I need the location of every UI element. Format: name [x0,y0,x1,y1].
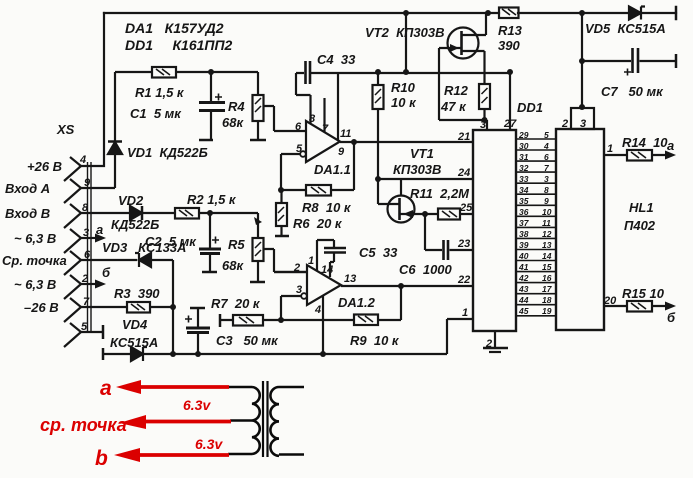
svg-text:~ 6,3 В: ~ 6,3 В [14,231,56,246]
resistor R7 20k [220,314,354,327]
label header DA1 K157UD2 [125,20,224,36]
svg-text:6: 6 [544,152,549,162]
svg-text:44: 44 [518,295,529,305]
label R10 10k [391,80,417,110]
svg-text:2: 2 [485,338,492,350]
capacitor C3 50mk electrolytic [185,308,210,354]
capacitor C5 33 loop pins 1-14 [317,240,346,277]
svg-text:С5 33: С5 33 [359,245,398,260]
node junction +line / pin27 riser [507,69,513,75]
svg-text:DD1 К161ПП2: DD1 К161ПП2 [125,37,233,53]
label input B [5,206,50,221]
label C1 5mk [130,106,182,121]
label red 6.3v upper [183,397,211,413]
svg-text:КП303В: КП303В [393,162,441,177]
label R1 1.5k [135,85,185,100]
svg-text:С1 5 мк: С1 5 мк [130,106,182,121]
svg-text:22: 22 [457,274,470,286]
svg-text:8: 8 [309,113,316,125]
svg-text:ср. точка: ср. точка [40,415,127,435]
label R9 10k [350,333,400,348]
core bars [263,381,268,457]
svg-text:11: 11 [542,218,551,228]
resistor R8 10k [306,185,331,196]
svg-text:VT1: VT1 [410,146,434,161]
svg-text:9: 9 [338,146,345,158]
svg-text:25: 25 [459,202,473,214]
svg-text:3: 3 [480,119,486,131]
svg-text:VD2: VD2 [118,193,144,208]
label DD1 left pins [457,131,473,319]
diode VD3 KS133A zener [135,253,151,267]
wire DD1 pin24 line [378,178,473,180]
svg-text:R13: R13 [498,23,523,38]
svg-text:14: 14 [542,251,552,261]
svg-text:DA1.1: DA1.1 [314,162,351,177]
label KD522B VD2 [111,217,159,232]
label b at pin2 [102,265,111,280]
wire DA1.2 output pin13 to DD1 pin22 [341,285,473,287]
wire pin27 riser into DD1 [509,72,511,130]
svg-text:5: 5 [296,143,303,155]
resistor R6 20k vertical [275,190,289,236]
label pin20 HL1 [603,295,617,307]
label R13 390 [498,23,523,53]
label R6 20k [293,216,343,231]
wire pin9 input A to VD1 [81,187,115,189]
wire winding lead middle [230,419,252,422]
label VD3 KS133A [102,240,186,255]
svg-text:6: 6 [295,121,302,133]
winding secondary right bumps [270,387,279,456]
svg-text:R5: R5 [228,237,245,252]
svg-text:10 к: 10 к [391,95,417,110]
svg-text:39: 39 [519,240,529,250]
wire connector double line [88,162,92,332]
wire pin8 input B line [81,212,175,214]
svg-text:9: 9 [84,177,91,189]
svg-text:10: 10 [542,207,552,217]
svg-text:R8 10 к: R8 10 к [302,200,352,215]
label bus pin numbers left 29-45 [518,130,530,316]
svg-text:13: 13 [542,240,552,250]
resistor R2 1.5k [175,208,258,219]
wire winding lead bottom [228,453,252,456]
label VD2 [118,193,144,208]
svg-text:35: 35 [519,196,529,206]
wire pin 4 DA1.2 to bottom rail [322,296,324,354]
HL1 top pin box 2/3 [571,13,594,129]
transformer T1 black symbol [228,381,304,457]
op-amp DA1.2 [307,265,341,305]
wire pin5 terminal [81,325,103,339]
wire red arrow a [116,380,229,394]
label R2 1.5k [187,192,237,207]
label ~6.3V upper [14,231,56,246]
label HL1 pin2 pin3 [561,118,586,130]
pin 3 DA1.2 inverting input circle [281,293,307,320]
svg-text:23: 23 [457,238,470,250]
node junction C7 branch [579,58,585,64]
label header DD1 K161PP2 [125,37,233,53]
label VD4 [122,317,148,332]
label DA1.2 [338,295,376,310]
svg-text:34: 34 [519,185,529,195]
node junction R8/R6/pin5 [278,187,284,193]
svg-text:3: 3 [296,284,302,296]
label a output [667,138,674,153]
diode VD4 KS515A zener on rail [131,347,147,361]
node junction HL1 pin3 entry [579,104,585,110]
node rail junction x488 [485,10,491,16]
svg-text:3: 3 [83,227,89,239]
svg-text:40: 40 [518,251,529,261]
IC HL1 P402 body [556,129,604,330]
node junction R2/C2 [207,210,213,216]
label R12 47k [440,83,469,114]
label VD1 KD522B [127,145,208,160]
label DA1.2 pins [293,255,356,316]
svg-text:b: b [95,447,108,470]
wire supply riser x406 to +line [405,13,407,72]
label ~6.3V lower [14,277,56,292]
svg-text:a: a [96,222,103,237]
svg-text:R1 1,5 к: R1 1,5 к [135,85,185,100]
IC DD1 K161PP2 body [473,130,516,331]
svg-text:12: 12 [542,229,552,239]
svg-text:68к: 68к [222,115,244,130]
svg-text:XS: XS [56,122,75,137]
svg-text:3: 3 [580,118,586,130]
wire R1 line y72 [115,71,258,73]
label C6 1000 [399,262,453,277]
wire DD1 to HL1 bus 17 lines [516,139,556,316]
svg-text:1: 1 [308,255,314,267]
resistor R14 10 with output arrow a [604,150,676,161]
svg-text:С6 1000: С6 1000 [399,262,453,277]
label midpoint [2,253,67,268]
svg-text:3: 3 [544,174,549,184]
label HL1 P402 [624,200,656,233]
label bus pin numbers right [542,130,553,316]
node junction R1/C1 [208,69,214,75]
node junction R10 bottom / gate VT1 [375,176,381,182]
svg-text:36: 36 [519,207,529,217]
label DD1 top pins 3 27 [480,118,517,131]
svg-text:R11 2,2М: R11 2,2М [410,186,470,201]
svg-text:2: 2 [293,262,300,274]
node junction pin3 feedback [278,317,284,323]
label R5 68k [222,237,245,273]
wire VT2 gate loop to DD1 pin3 [439,48,487,130]
label DD1 [517,100,543,115]
svg-text:R2 1,5 к: R2 1,5 к [187,192,237,207]
svg-text:Ср. точка: Ср. точка [2,253,67,268]
label R7 20k [211,296,261,311]
label VT2 KP303V [365,25,445,40]
svg-text:31: 31 [519,152,529,162]
svg-text:42: 42 [518,273,529,283]
label -26V [24,300,59,315]
svg-text:7: 7 [322,123,329,135]
node junction R10 top [375,69,381,75]
label C3 50mk [216,333,279,348]
svg-text:33: 33 [519,174,529,184]
svg-text:4: 4 [543,141,549,151]
node junction DA1.2 pin4 rail [320,351,326,357]
label C7 50mk [601,84,664,99]
svg-text:VD4: VD4 [122,317,148,332]
node junction +line x406 [403,69,409,75]
svg-text:R10: R10 [391,80,416,95]
svg-text:68к: 68к [222,258,244,273]
svg-text:6.3v: 6.3v [195,436,223,452]
label red b [95,447,108,470]
label DA1.1 pins [295,113,351,158]
svg-text:R6 20 к: R6 20 к [293,216,343,231]
wire secondary lead bottom [279,453,304,456]
svg-text:VD1 КД522Б: VD1 КД522Б [127,145,208,160]
svg-text:R14 10: R14 10 [622,135,668,150]
pin 5 DA1.1 inverting input circle [281,151,306,190]
svg-text:R12: R12 [444,83,469,98]
wire top supply rail [104,7,676,19]
wire left riser from pin 4 to rail [80,13,104,166]
svg-text:Вход А: Вход А [5,181,50,196]
svg-text:С3 50 мк: С3 50 мк [216,333,279,348]
svg-text:15: 15 [542,262,552,272]
svg-text:29: 29 [518,130,529,140]
svg-text:С4 33: С4 33 [317,52,356,67]
label R3 390 [114,286,160,301]
svg-text:45: 45 [518,306,529,316]
svg-text:1: 1 [607,143,613,155]
svg-text:20: 20 [603,295,617,307]
op-amp DA1.1 [306,121,340,162]
label red 6.3v lower [195,436,223,452]
svg-text:+26 В: +26 В [27,159,62,174]
transistor VT1 KP303V [378,179,425,223]
svg-text:5: 5 [81,321,88,333]
label KS515A VD4 [110,335,158,350]
label b output [667,310,676,325]
label red a [100,377,112,400]
resistor R13 390 on rail [499,8,519,19]
svg-text:7: 7 [83,296,90,308]
resistor R12 47k vertical [479,84,490,120]
node junction output/R9 [398,283,404,289]
svg-text:37: 37 [519,218,530,228]
label R15 10 [622,286,665,301]
capacitor C4 33 with loop to pin 8 [296,61,511,123]
svg-text:27: 27 [503,118,517,130]
wire feedback to R8 [281,142,354,190]
svg-text:a: a [667,138,674,153]
svg-text:R9 10 к: R9 10 к [350,333,400,348]
svg-text:21: 21 [457,131,470,143]
wire pin7 -26V line [81,306,173,308]
label C2 5mk [145,234,197,249]
svg-text:8: 8 [544,185,549,195]
capacitor C1 5mk electrolytic [199,72,225,140]
wire bottom rail [103,319,473,360]
svg-text:11: 11 [340,128,351,140]
svg-text:390: 390 [498,38,520,53]
node junction C3 rail [195,351,201,357]
svg-text:R7 20 к: R7 20 к [211,296,261,311]
svg-text:32: 32 [519,163,529,173]
label input A [5,181,50,196]
svg-text:17: 17 [542,284,553,294]
svg-text:HL1: HL1 [629,200,654,215]
svg-text:R4: R4 [228,99,245,114]
resistor R10 10k vertical [373,72,384,179]
svg-text:б: б [102,265,111,280]
svg-text:a: a [100,377,112,400]
svg-text:П402: П402 [624,218,656,233]
svg-text:6.3v: 6.3v [183,397,211,413]
diode VD1 KD522B vertical [108,72,122,188]
svg-text:VD3 КС133А: VD3 КС133А [102,240,186,255]
svg-text:–26 В: –26 В [24,300,59,315]
capacitor C7 50mk [582,48,676,76]
svg-text:DA1.2: DA1.2 [338,295,376,310]
wire vertical x173 [172,260,174,354]
label connector pin numbers [79,154,91,333]
resistor R3 390 [127,302,150,313]
wire pin6 midpoint line [81,259,173,261]
wire winding lead top [228,386,252,389]
node junction x173 rail [170,351,176,357]
wire red arrow middle [119,415,231,429]
svg-text:6: 6 [84,249,91,261]
svg-text:8: 8 [82,202,89,214]
node rail junction x406 [403,10,409,16]
wire DA1.1 output to DD1 pin21 [340,141,473,143]
svg-text:КС515А: КС515А [110,335,158,350]
label VD5 KS515A [585,21,666,36]
node junction R3/x173 [170,304,176,310]
svg-text:38: 38 [519,229,529,239]
label red sr.tochka [40,415,127,435]
svg-text:43: 43 [518,284,529,294]
label C4 33 [317,52,356,67]
svg-text:б: б [667,310,676,325]
wire DD1 pin2 ground [483,331,508,352]
label DD1 pin2 ground [485,338,492,350]
wire red arrow b [114,448,229,462]
label VT1 KP303V [393,146,441,177]
winding primary left bumps [252,387,260,454]
resistor R4 68k vertical with tap [250,72,306,140]
svg-text:41: 41 [518,262,529,272]
wire secondary lead top [279,386,304,389]
resistor R5 68k vertical with tap [250,213,307,282]
diode VD5 KS515A zener on rail [629,7,645,20]
label R14 10 [622,135,668,150]
wire pin 11 DA1.1 supply [337,73,339,140]
svg-text:VD5 КС515А: VD5 КС515А [585,21,666,36]
svg-text:5: 5 [544,130,549,140]
resistor R1 1.5k [152,67,176,78]
svg-text:2: 2 [561,118,568,130]
label DA1.1 [314,162,351,177]
capacitor C6 1000 [425,214,473,260]
svg-text:4: 4 [79,154,86,166]
transistor VT2 KP303V [439,13,486,84]
svg-text:КД522Б: КД522Б [111,217,159,232]
wire pin3 ~6.3V stub arrow a [81,234,106,243]
svg-text:24: 24 [457,167,470,179]
label R8 10k [302,200,352,215]
capacitor C2 5mk electrolytic [199,213,221,272]
svg-text:R15 10: R15 10 [622,286,665,301]
svg-text:С7 50 мк: С7 50 мк [601,84,664,99]
svg-text:14: 14 [321,264,333,276]
svg-text:DD1: DD1 [517,100,543,115]
svg-text:16: 16 [542,273,552,283]
svg-text:DA1 К157УД2: DA1 К157УД2 [125,20,224,36]
wire pin 2 DA1.2 input [274,271,307,273]
svg-text:~ 6,3 В: ~ 6,3 В [14,277,56,292]
resistor R15 10 with output arrow b [604,301,676,312]
node junction R12 bottom [482,117,488,123]
resistor R11 2.2M [425,209,473,220]
label R11 2.2M [410,186,470,201]
node junction DA1.1 output [351,139,357,145]
label XS [56,122,75,137]
svg-text:9: 9 [544,196,549,206]
svg-text:Вход В: Вход В [5,206,50,221]
label a at pin3 [96,222,103,237]
label R4 68k [222,99,245,130]
label C5 33 [359,245,398,260]
resistor R9 10k [354,286,401,325]
wire pin2 ~6.3V stub arrow b [81,280,106,289]
label pin1 HL1 [607,143,613,155]
svg-text:2: 2 [81,273,88,285]
connector XS chevron pins [64,157,81,347]
svg-text:R3 390: R3 390 [114,286,160,301]
svg-text:18: 18 [542,295,552,305]
svg-text:47 к: 47 к [440,99,467,114]
svg-text:1: 1 [462,307,468,319]
node rail junction x582 [579,10,585,16]
diode VD2 KD522B [130,206,142,220]
svg-text:19: 19 [542,306,552,316]
svg-text:13: 13 [344,273,356,285]
svg-text:4: 4 [314,304,321,316]
svg-text:VT2 КП303В: VT2 КП303В [365,25,445,40]
label +26V [27,159,62,174]
node junction VT1 source / R11 [422,211,428,217]
svg-text:30: 30 [519,141,529,151]
wire pin 7 DA1.1 stub [323,98,325,132]
